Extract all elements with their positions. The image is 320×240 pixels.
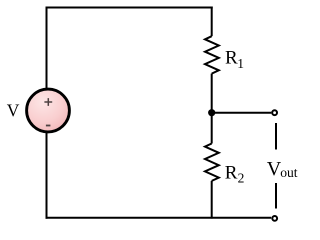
wire right vertical lower (node to R2) [211,113,213,144]
svg-text:R: R [225,47,238,68]
svg-text:2: 2 [238,170,245,185]
wire top rail [46,7,213,9]
wire top-left vertical (source to top rail) [46,8,48,90]
wire bottom rail [46,217,272,219]
Vout bracket lower line [275,183,277,209]
svg-text:1: 1 [237,56,244,71]
Vout bracket upper line [275,123,277,150]
svg-text:R: R [225,162,238,183]
svg-text:out: out [280,165,298,180]
wire right vertical middle (R1 to node) [211,74,213,113]
voltage source V [27,89,70,132]
resistor R1 [205,36,219,73]
wire right vertical upper (top rail to R1) [211,7,213,37]
wire R2 to bottom rail [211,181,213,219]
node junction dot [208,109,215,116]
resistor R2 [205,144,219,181]
wire bottom-left vertical (bottom rail to source) [46,132,48,219]
svg-text:V: V [7,101,20,121]
bottom output terminal [272,216,277,221]
top output terminal [272,110,277,115]
plus sign of source [44,98,52,106]
minus sign of source [46,125,51,127]
wire node to top output terminal [212,112,272,114]
